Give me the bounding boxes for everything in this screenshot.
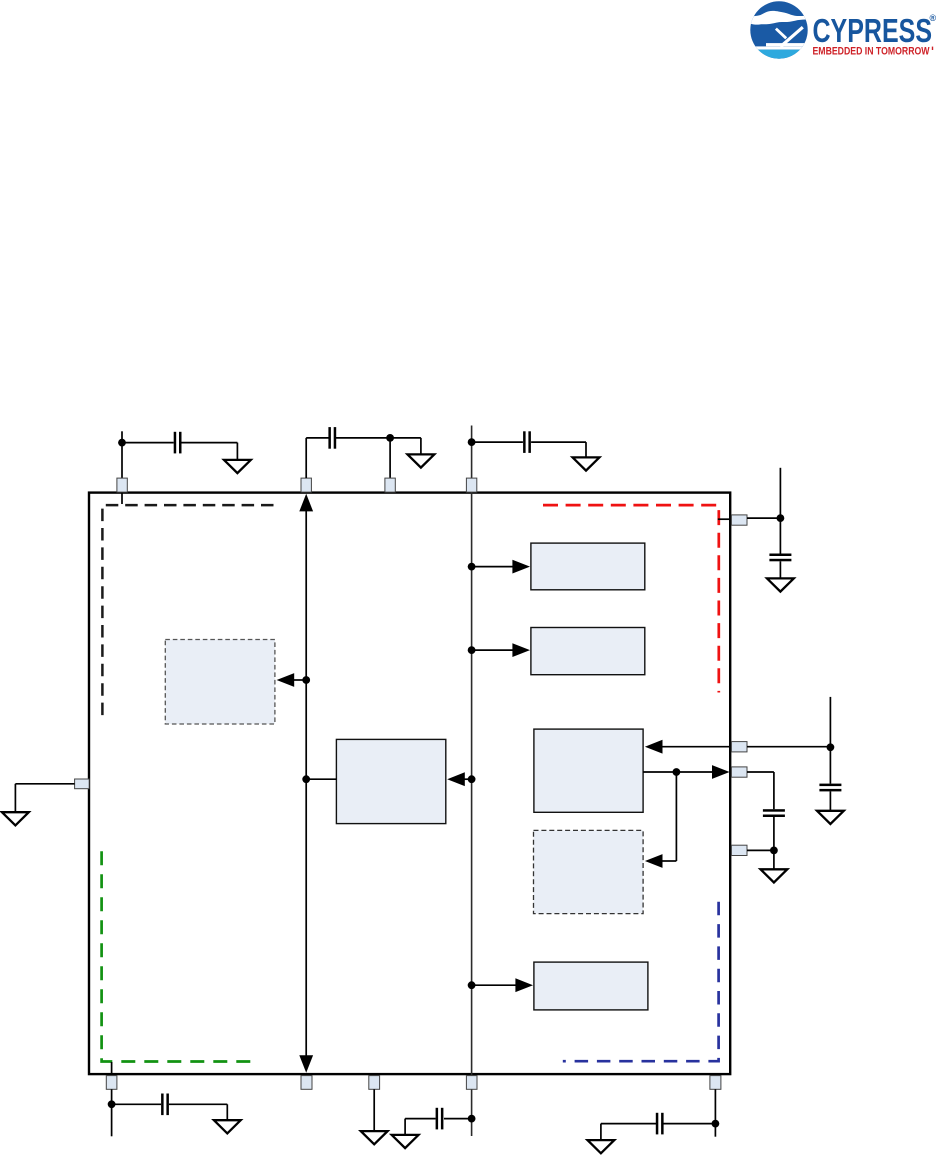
pin P13 (bottom, rail B) xyxy=(466,1076,477,1090)
capacitor C6 xyxy=(763,809,785,817)
node rail B to U3 xyxy=(468,560,530,574)
block U7 (right bottom) xyxy=(534,962,648,1010)
ground GND11 xyxy=(588,1140,615,1153)
wire junction to capacitor C9 xyxy=(663,1123,715,1125)
wire C3 to ground xyxy=(531,442,586,457)
wire junction to ground xyxy=(773,850,775,869)
capacitor C1 xyxy=(174,432,182,454)
wire P7 to capacitor C6 xyxy=(747,772,774,809)
junction top group 1 xyxy=(118,439,126,447)
junction top group 2 xyxy=(386,434,394,442)
svg-text:EMBEDDED IN TOMORROW: EMBEDDED IN TOMORROW xyxy=(813,46,930,58)
wire U5 output to pin xyxy=(643,765,730,779)
wire C2 to junction xyxy=(335,437,390,439)
svg-text:®: ® xyxy=(930,13,937,23)
analog domain bracket (red dashed) xyxy=(543,505,719,692)
wire junction to capacitor C8 xyxy=(444,1118,472,1120)
ground GND1 xyxy=(224,460,251,473)
wire C7 to ground xyxy=(169,1104,227,1120)
pin P8 xyxy=(731,845,747,855)
capacitor C8 xyxy=(436,1108,444,1130)
junction right group 1 xyxy=(777,514,785,522)
wire P12 to ground xyxy=(373,1089,375,1131)
node rail A to U1 xyxy=(277,673,311,687)
pin P12 (bottom) xyxy=(369,1076,380,1090)
tagline trademark tick xyxy=(932,47,933,50)
pin P9 (left) xyxy=(75,779,90,789)
wire P8 to junction xyxy=(747,849,774,851)
wire C4 to ground xyxy=(779,561,781,578)
core domain bracket (blue dashed) xyxy=(563,902,719,1061)
digital domain bracket (black dashed) xyxy=(102,505,273,715)
capacitor C3 xyxy=(523,431,531,453)
pin P1 inner stub xyxy=(121,493,123,504)
ground GND9 xyxy=(361,1131,388,1144)
junction bottom group 4 xyxy=(712,1120,720,1128)
junction top group 3 xyxy=(468,438,476,446)
capacitor C5 xyxy=(819,784,841,792)
pin P3 xyxy=(385,478,395,492)
ground GND4 xyxy=(767,578,794,591)
ground GND3 xyxy=(573,457,600,470)
wire to capacitor C3 xyxy=(472,441,523,443)
pin P5 (right top) xyxy=(731,515,747,525)
supply stub top group 1 xyxy=(121,431,123,478)
pin P14 (bottom right) xyxy=(710,1076,721,1090)
power rail B (vertical net) xyxy=(471,426,473,1137)
block U1 (left, dashed) xyxy=(165,640,275,725)
wire C8 to ground xyxy=(405,1119,436,1135)
wire C6 to junction xyxy=(773,817,775,850)
power rail A (vertical bus with arrows) xyxy=(299,494,313,1073)
block U4 (right second) xyxy=(531,628,645,675)
ground GND2 xyxy=(408,454,435,467)
junction right group 2 xyxy=(827,743,835,751)
pin P10 (bottom left) xyxy=(106,1076,117,1090)
wire to capacitor C7 xyxy=(112,1103,161,1105)
ground GND6 xyxy=(761,869,788,882)
capacitor C4 xyxy=(769,554,791,562)
block U2 (center regulator) xyxy=(336,739,445,823)
node rail B to U7 xyxy=(468,978,533,992)
block U5 (right large) xyxy=(534,729,643,812)
wire pin VCCD to U5 xyxy=(645,740,732,754)
chip boundary xyxy=(89,493,730,1075)
wire P6 to junction xyxy=(747,746,830,748)
wire C5 to ground xyxy=(829,791,831,810)
supply stub right group 1 xyxy=(779,468,781,518)
wire U5 output down to U6 xyxy=(645,772,677,868)
pin P2 xyxy=(301,478,311,492)
wire junction to pin P3 xyxy=(389,438,391,478)
junction right group 3 xyxy=(770,847,778,855)
pin P7 (regulator out) xyxy=(731,767,747,777)
pin P1 xyxy=(117,478,127,492)
pin P6 (VCCD in) xyxy=(731,742,747,752)
IO domain bracket (green dashed) xyxy=(102,851,259,1061)
wire P5 to junction xyxy=(747,517,780,519)
Cypress logo circle xyxy=(750,1,809,59)
supply stub bottom group 1 xyxy=(111,1089,113,1136)
ground GND7 xyxy=(2,812,29,825)
capacitor C2 xyxy=(328,427,336,449)
wire to capacitor C4 xyxy=(779,518,781,553)
wire P9 to ground xyxy=(15,784,74,812)
block U3 (right top) xyxy=(531,543,645,590)
ground GND5 xyxy=(817,811,844,824)
supply stub bottom group 4 xyxy=(714,1089,716,1136)
svg-text:CYPRESS: CYPRESS xyxy=(813,13,933,50)
capacitor C9 xyxy=(656,1113,664,1135)
pin P10 inner stub xyxy=(111,1062,113,1074)
capacitor C7 xyxy=(161,1094,169,1116)
wire to capacitor C5 xyxy=(829,747,831,783)
pin P5 stub to red bracket xyxy=(718,518,732,520)
junction bottom group 1 xyxy=(108,1100,116,1108)
pin P4 xyxy=(466,478,476,492)
ground GND8 xyxy=(214,1120,241,1133)
wire junction to ground xyxy=(390,438,421,455)
node rail B to U4 xyxy=(468,643,530,657)
wire C9 to ground xyxy=(601,1124,656,1141)
supply stub right group 2 xyxy=(829,697,831,747)
ground GND10 xyxy=(392,1135,419,1148)
node rail B to U2 xyxy=(447,772,475,786)
node rail A to U2 xyxy=(302,775,336,783)
wire to capacitor C1 xyxy=(122,442,174,444)
pin P11 (bottom, rail A) xyxy=(301,1076,312,1090)
wire C1 to ground xyxy=(182,443,238,460)
block U6 (right, dashed) xyxy=(534,830,644,913)
wire P2 up to C2 xyxy=(306,438,329,478)
junction bottom group 3 xyxy=(468,1115,476,1123)
